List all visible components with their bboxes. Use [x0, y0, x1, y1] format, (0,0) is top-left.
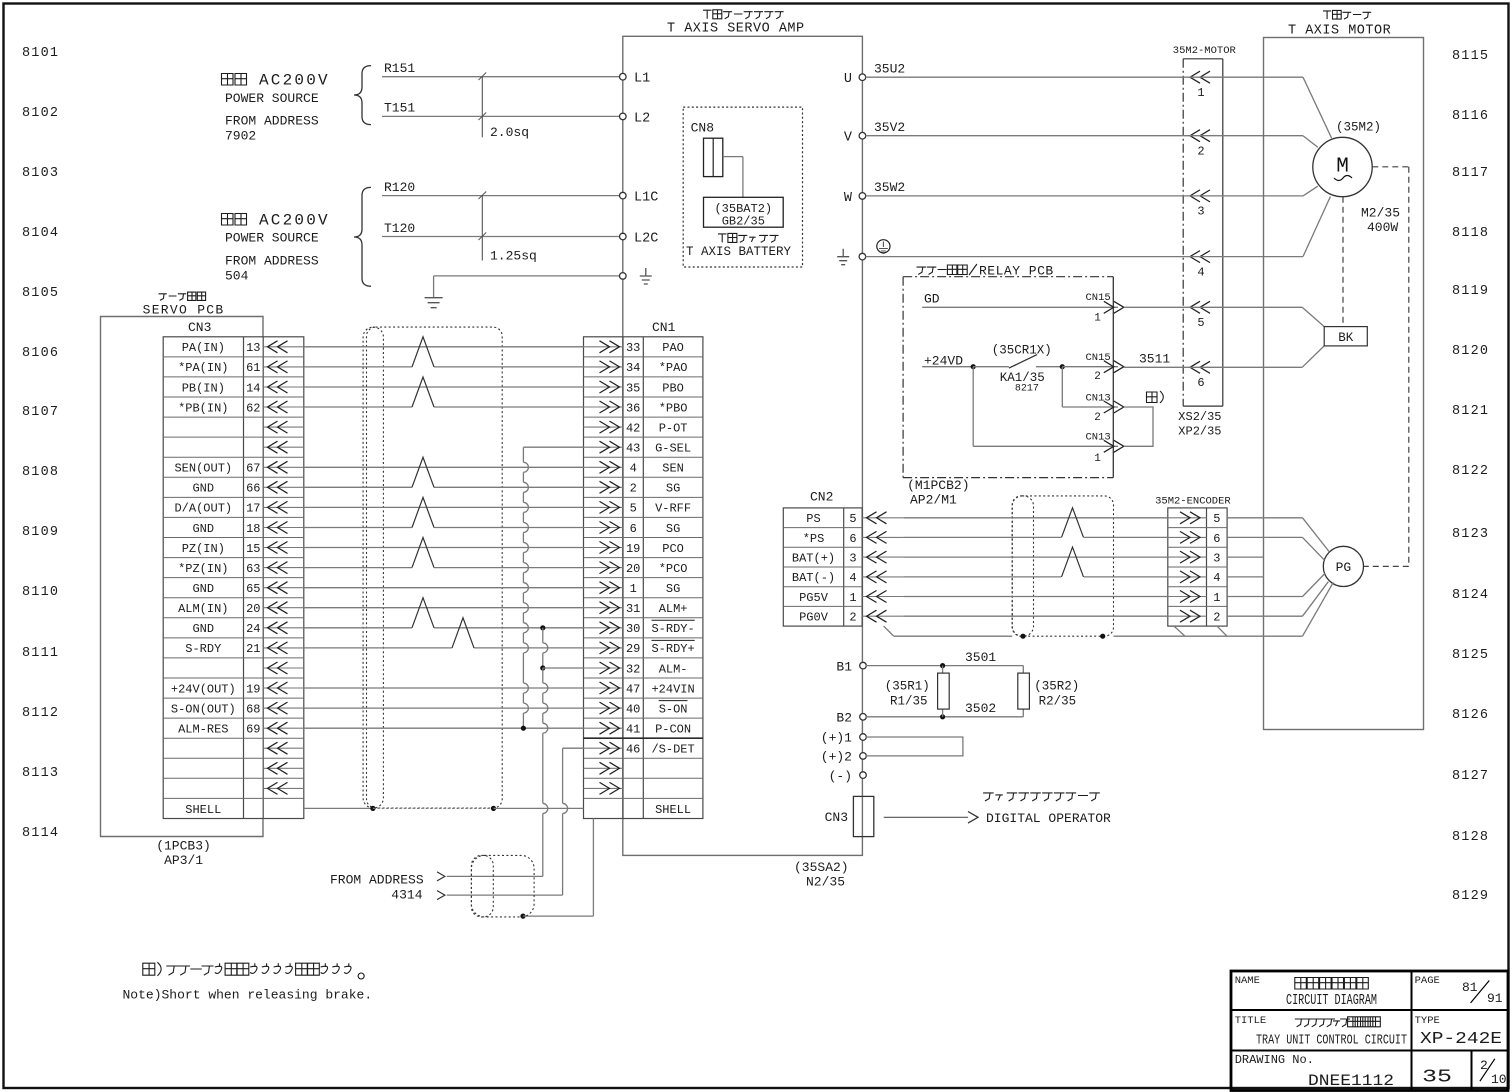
svg-text:GD: GD — [924, 292, 940, 307]
svg-text:8120: 8120 — [1452, 344, 1489, 359]
svg-text:T AXIS BATTERY: T AXIS BATTERY — [686, 245, 792, 259]
motor strip pin 4 arrow — [1190, 251, 1210, 263]
CN13 pin1 wire — [972, 367, 974, 447]
wire-size tick 2.0sq — [481, 77, 483, 138]
wire CN2 row 1 to encoder — [903, 517, 1168, 519]
svg-text:4: 4 — [1213, 571, 1220, 585]
svg-text:CIRCUIT DIAGRAM: CIRCUIT DIAGRAM — [1286, 993, 1377, 1009]
svg-text:65: 65 — [246, 582, 260, 596]
svg-text:8103: 8103 — [22, 166, 59, 181]
terminal V — [859, 132, 866, 139]
svg-text:T120: T120 — [384, 221, 415, 236]
title: circuit diagram (JP) — [1295, 978, 1369, 990]
svg-text:63: 63 — [246, 562, 260, 576]
svg-text:35U2: 35U2 — [874, 62, 905, 77]
encoder row 4 arrow — [1168, 576, 1207, 578]
svg-text:4: 4 — [630, 462, 637, 476]
svg-text:SG: SG — [666, 582, 680, 596]
CN1 row 15 arrow — [584, 627, 624, 629]
svg-text:8127: 8127 — [1452, 769, 1489, 784]
motor strip pin 2 arrow — [1190, 130, 1210, 142]
CN1 row 2 arrow — [584, 366, 624, 368]
svg-text:R1/35: R1/35 — [890, 695, 928, 709]
CN1 row 11 arrow — [584, 547, 624, 549]
label T axis motor (JP) — [1323, 10, 1371, 19]
svg-text:35M2-ENCODER: 35M2-ENCODER — [1155, 496, 1231, 508]
wire GD to motor pin 5 — [1124, 306, 1302, 308]
svg-text:(+)1: (+)1 — [821, 731, 852, 746]
wire CN2 row 3 to encoder — [903, 556, 1168, 558]
svg-text:3511: 3511 — [1139, 352, 1170, 367]
CN1 row 1 arrow — [584, 346, 624, 348]
svg-text:FROM ADDRESS: FROM ADDRESS — [330, 873, 424, 888]
CN1 row 3 arrow — [584, 386, 624, 388]
wire-size tick 1.25sq — [481, 196, 483, 261]
svg-text:PAGE: PAGE — [1415, 975, 1440, 987]
title: tray unit control circuit (JP) — [1295, 1017, 1381, 1027]
CN1 row 22 arrow — [584, 767, 624, 769]
label servo pcb (JP) — [159, 292, 206, 300]
svg-text:SG: SG — [666, 482, 680, 496]
CN2 row 5 arrow — [862, 596, 903, 598]
shield capsule left (CN3 side) — [363, 327, 383, 808]
svg-text:21: 21 — [246, 642, 260, 656]
svg-text:1: 1 — [1213, 591, 1220, 605]
svg-text:2: 2 — [1094, 371, 1101, 383]
encoder shield capsule — [1012, 496, 1033, 636]
svg-text:R151: R151 — [384, 61, 415, 76]
wire E (earth) — [866, 256, 1304, 258]
terminal B2 — [860, 714, 867, 721]
svg-text:BAT(-): BAT(-) — [792, 571, 835, 585]
label T axis servo amp (JP) — [703, 10, 784, 19]
svg-text:1: 1 — [849, 591, 856, 605]
CN3 row 8 arrow — [263, 486, 304, 488]
svg-text:SG: SG — [666, 522, 680, 536]
svg-text:(35SA2): (35SA2) — [794, 860, 849, 875]
net 3502 wire — [866, 716, 1023, 718]
CN3 row 20 arrow — [263, 727, 304, 729]
T AXIS MOTOR box — [1264, 38, 1424, 730]
relay pcb box — [903, 276, 1113, 278]
svg-text:5: 5 — [1213, 512, 1220, 526]
CN3 row 11 arrow — [263, 547, 304, 549]
CN3 row 18 arrow — [263, 687, 304, 689]
svg-text:1: 1 — [1094, 453, 1101, 465]
svg-text:S-ON: S-ON — [659, 702, 688, 716]
svg-text:(35R1): (35R1) — [885, 679, 930, 693]
svg-text:NAME: NAME — [1235, 975, 1260, 987]
net 3501 wire — [866, 665, 1023, 667]
CN1 row 12 arrow — [584, 567, 624, 569]
encoder shield outline — [1012, 496, 1113, 636]
wire CN3 row 4 to CN1 — [304, 406, 412, 408]
svg-text:SERVO PCB: SERVO PCB — [143, 303, 225, 318]
label relay pcb (JP)/RELAY PCB — [917, 264, 977, 275]
svg-text:CN15: CN15 — [1086, 292, 1111, 304]
svg-text:TRAY UNIT CONTROL CIRCUIT: TRAY UNIT CONTROL CIRCUIT — [1256, 1033, 1407, 1049]
CN13 pin2 wire — [1061, 367, 1063, 407]
ground wire from amp left — [434, 275, 620, 277]
motor strip pin 5 arrow — [1190, 301, 1210, 313]
wire CN3 row 8 to CN1 — [304, 486, 412, 488]
svg-text:42: 42 — [626, 421, 640, 435]
svg-text:S-RDY-: S-RDY- — [651, 622, 694, 636]
svg-text:35V2: 35V2 — [874, 120, 905, 135]
svg-text:AP3/1: AP3/1 — [164, 853, 203, 868]
jumper loop — [866, 737, 963, 756]
svg-text:8217: 8217 — [1015, 383, 1039, 394]
CN1 row 16 arrow — [584, 647, 624, 649]
svg-text:CN15: CN15 — [1086, 352, 1111, 364]
svg-text:U: U — [844, 72, 852, 87]
svg-text:CN8: CN8 — [691, 121, 714, 136]
svg-text:CN3: CN3 — [188, 320, 211, 335]
CN3 row 5 arrow — [263, 426, 304, 428]
connector CN1 table — [584, 337, 703, 819]
svg-text:8107: 8107 — [22, 405, 59, 420]
svg-text:G-SEL: G-SEL — [655, 442, 691, 456]
svg-text:TYPE: TYPE — [1415, 1015, 1440, 1027]
svg-text:GND: GND — [192, 622, 214, 636]
svg-text:8102: 8102 — [22, 106, 59, 121]
wire CN3 row 2 to CN1 — [304, 366, 412, 368]
svg-text:PA(IN): PA(IN) — [182, 341, 225, 355]
wire CN2 row 4 to encoder — [903, 576, 1061, 578]
terminal L2C — [620, 233, 627, 240]
svg-text:35: 35 — [1422, 1068, 1452, 1088]
wire CN3 row 9 to CN1 — [304, 506, 584, 508]
svg-text:8122: 8122 — [1452, 464, 1489, 479]
CN1 row 18 arrow — [584, 687, 624, 689]
svg-text:3: 3 — [1197, 205, 1204, 219]
svg-text:2: 2 — [1213, 611, 1220, 625]
motor strip pin 6 arrow — [1190, 361, 1210, 373]
svg-text:(35M2): (35M2) — [1336, 121, 1381, 135]
CN3 row 10 arrow — [263, 527, 304, 529]
from-address wire 1 — [447, 875, 543, 877]
wire CN2 row 2 to encoder — [903, 536, 1061, 538]
CN3 row 9 arrow — [263, 506, 304, 508]
motor circle M 35M2 — [1313, 137, 1372, 196]
svg-text:8128: 8128 — [1452, 830, 1489, 845]
svg-text:(-): (-) — [829, 769, 852, 784]
svg-text:10: 10 — [1491, 1072, 1507, 1087]
svg-text:8119: 8119 — [1452, 284, 1489, 299]
svg-text:2.0sq: 2.0sq — [490, 125, 529, 140]
dashed link M to PG — [1372, 166, 1409, 168]
svg-text:8126: 8126 — [1452, 708, 1489, 723]
svg-text:1.25sq: 1.25sq — [490, 249, 537, 264]
CN1 row 6 arrow — [584, 446, 624, 448]
svg-text:1: 1 — [1197, 86, 1204, 100]
terminal PE with earth symbol — [620, 273, 627, 280]
power source label 2 (AC200V from 504) — [222, 214, 247, 226]
wire CN3 row 18 to CN1 — [304, 687, 584, 689]
wire CN3 row 13 to CN1 — [304, 587, 584, 589]
svg-text:PCO: PCO — [662, 542, 684, 556]
resistor R2/35 (35R2) — [1022, 666, 1024, 674]
PG circle — [1323, 546, 1363, 586]
encoder row 1 arrow — [1168, 517, 1207, 519]
svg-text:8115: 8115 — [1452, 49, 1489, 64]
CN1 row 17 arrow — [584, 667, 624, 669]
svg-text:8112: 8112 — [22, 706, 59, 721]
svg-text:ALM-RES: ALM-RES — [178, 723, 228, 737]
CN3 row 13 arrow — [263, 587, 304, 589]
svg-text:L1C: L1C — [634, 191, 658, 206]
svg-text:8106: 8106 — [22, 346, 59, 361]
svg-text:2: 2 — [630, 482, 637, 496]
svg-text:35: 35 — [626, 381, 640, 395]
svg-text:DRAWING No.: DRAWING No. — [1235, 1053, 1314, 1067]
svg-text:L1: L1 — [634, 72, 650, 87]
CN1 row 5 arrow — [584, 426, 624, 428]
svg-text:5: 5 — [1197, 316, 1204, 330]
CN3 row 14 arrow — [263, 607, 304, 609]
svg-text:2: 2 — [1094, 412, 1101, 424]
from-address wire 2 — [447, 894, 563, 896]
svg-text:B1: B1 — [836, 659, 852, 674]
svg-text:PS: PS — [806, 512, 820, 526]
svg-text:5: 5 — [630, 502, 637, 516]
CN3 row 23 arrow — [263, 787, 304, 789]
svg-text:D/A(OUT): D/A(OUT) — [174, 502, 232, 516]
svg-text:20: 20 — [246, 602, 260, 616]
svg-text:3501: 3501 — [965, 650, 996, 665]
svg-text:24: 24 — [246, 622, 260, 636]
svg-text:67: 67 — [246, 462, 260, 476]
wire CN3 row 7 to CN1 — [304, 466, 584, 468]
terminal (+)1 — [860, 734, 867, 741]
resistor R1/35 (35R1) — [942, 666, 944, 674]
CN1 row 13 arrow — [584, 587, 624, 589]
svg-text:L2: L2 — [634, 111, 650, 126]
svg-text:CN1: CN1 — [652, 320, 676, 335]
svg-text:L2C: L2C — [634, 231, 658, 246]
power source label 1 (AC200V from 7902) — [222, 74, 247, 86]
svg-text:8104: 8104 — [22, 226, 59, 241]
svg-text:35M2-MOTOR: 35M2-MOTOR — [1173, 45, 1237, 57]
wire CN3 row 10 to CN1 — [304, 527, 412, 529]
svg-text:DNEE1112: DNEE1112 — [1308, 1072, 1394, 1090]
encoder row 2 arrow — [1168, 536, 1207, 538]
terminal L1C — [620, 192, 627, 199]
svg-text:B2: B2 — [836, 711, 852, 726]
svg-text:4: 4 — [1197, 265, 1204, 279]
svg-text:S-RDY: S-RDY — [185, 642, 221, 656]
encoder row 3 arrow — [1168, 556, 1207, 558]
svg-text:FROM ADDRESS: FROM ADDRESS — [225, 254, 319, 269]
svg-text:CN13: CN13 — [1086, 432, 1111, 444]
CN3 row 17 arrow — [263, 667, 304, 669]
svg-text:T151: T151 — [384, 101, 415, 116]
svg-text:3: 3 — [849, 552, 856, 566]
note mark (JP) — [1147, 391, 1164, 403]
CN2 row 3 arrow — [862, 556, 903, 558]
svg-text:PG: PG — [1336, 560, 1352, 575]
svg-text:XP2/35: XP2/35 — [1178, 425, 1221, 439]
terminal U — [859, 74, 866, 81]
svg-text:SEN(OUT): SEN(OUT) — [174, 462, 232, 476]
svg-text:8117: 8117 — [1452, 166, 1489, 181]
svg-text:504: 504 — [225, 269, 249, 284]
BK brake tag — [1302, 307, 1324, 326]
from-address shield outline — [471, 855, 534, 917]
svg-text:V: V — [844, 131, 853, 146]
CN2 row 2 arrow — [862, 536, 903, 538]
svg-text:*PS: *PS — [803, 532, 825, 546]
svg-text:S-RDY+: S-RDY+ — [651, 642, 694, 656]
svg-text:18: 18 — [246, 522, 260, 536]
svg-text:W: W — [844, 191, 853, 206]
encoder twisted pair marks — [1062, 508, 1084, 538]
svg-text:8109: 8109 — [22, 525, 59, 540]
svg-text:ALM-: ALM- — [659, 662, 688, 676]
svg-text:1: 1 — [630, 582, 637, 596]
svg-text:AP2/M1: AP2/M1 — [910, 493, 957, 508]
svg-text:(35CR1X): (35CR1X) — [992, 344, 1052, 358]
terminal (+)2 — [860, 753, 867, 760]
svg-text:7902: 7902 — [225, 129, 256, 144]
wire CN3 row 19 to CN1 — [304, 707, 584, 709]
svg-text:PBO: PBO — [662, 381, 684, 395]
wire CN3 row 11 to CN1 — [304, 547, 584, 549]
svg-text:4: 4 — [849, 571, 856, 585]
svg-text:34: 34 — [626, 361, 640, 375]
svg-text:8123: 8123 — [1452, 527, 1489, 542]
svg-text:3: 3 — [1213, 552, 1220, 566]
svg-text:2: 2 — [849, 611, 856, 625]
dashed link M to BK — [1342, 197, 1344, 327]
svg-text:30: 30 — [626, 622, 640, 636]
svg-text:81: 81 — [1462, 980, 1478, 995]
svg-text:XP-242E: XP-242E — [1420, 1030, 1502, 1049]
svg-text:POWER SOURCE: POWER SOURCE — [225, 231, 319, 246]
motor strip pin 1 arrow — [1190, 71, 1210, 83]
svg-text:POWER SOURCE: POWER SOURCE — [225, 91, 319, 106]
CN2 row 1 arrow — [862, 517, 903, 519]
CN3 row 12 arrow — [263, 567, 304, 569]
encoder row 6 arrow — [1168, 615, 1207, 617]
CN3 row 1 arrow — [263, 346, 304, 348]
svg-text:R2/35: R2/35 — [1039, 695, 1077, 709]
svg-text:31: 31 — [626, 602, 640, 616]
terminal B1 — [860, 662, 867, 669]
encoder row 5 arrow — [1168, 596, 1207, 598]
brace 1 — [354, 66, 371, 125]
svg-text:14: 14 — [246, 381, 260, 395]
svg-text:6: 6 — [630, 522, 637, 536]
svg-text:8111: 8111 — [22, 646, 59, 661]
CN3 row 2 arrow — [263, 366, 304, 368]
CN1 row 21 arrow — [584, 747, 624, 749]
svg-text:8105: 8105 — [22, 286, 59, 301]
battery box 35BAT2 GB2/35 — [704, 197, 784, 227]
svg-text:P-CON: P-CON — [655, 723, 691, 737]
twisted pair marks — [412, 337, 434, 367]
svg-text:R120: R120 — [384, 180, 415, 195]
svg-text:TITLE: TITLE — [1235, 1015, 1267, 1027]
svg-text:P-OT: P-OT — [659, 421, 688, 435]
svg-text:8113: 8113 — [22, 766, 59, 781]
CN3 row 4 arrow — [263, 406, 304, 408]
svg-text:17: 17 — [246, 502, 260, 516]
CN1 row 8 arrow — [584, 486, 624, 488]
svg-text:66: 66 — [246, 482, 260, 496]
svg-text:PB(IN): PB(IN) — [182, 381, 225, 395]
CN1 row 19 arrow — [584, 707, 624, 709]
svg-text:PG0V: PG0V — [799, 611, 829, 625]
svg-text:T AXIS SERVO AMP: T AXIS SERVO AMP — [667, 22, 805, 37]
svg-text:RELAY PCB: RELAY PCB — [979, 264, 1054, 279]
encoder wires to PG — [1227, 517, 1302, 519]
svg-text:BK: BK — [1338, 331, 1354, 345]
svg-text:15: 15 — [246, 542, 260, 556]
svg-text:AC200V: AC200V — [259, 72, 330, 90]
shield outline (CN3-CN1 harness) — [367, 327, 503, 808]
wire CN3 row 12 to CN1 — [304, 567, 412, 569]
svg-text:6: 6 — [1197, 376, 1204, 390]
svg-text:CN3: CN3 — [825, 810, 848, 825]
CN1 row 10 arrow — [584, 527, 624, 529]
svg-text:/S-DET: /S-DET — [651, 743, 694, 757]
svg-text:(35R2): (35R2) — [1034, 679, 1079, 693]
svg-text:8108: 8108 — [22, 465, 59, 480]
svg-text:*PZ(IN): *PZ(IN) — [178, 562, 228, 576]
svg-text:PZ(IN): PZ(IN) — [182, 542, 225, 556]
svg-text:(1PCB3): (1PCB3) — [156, 839, 211, 854]
CN3 row 16 arrow — [263, 647, 304, 649]
svg-text:2: 2 — [1197, 145, 1204, 159]
wire CN3 row 16 to CN1 — [304, 647, 452, 649]
svg-text:8118: 8118 — [1452, 226, 1489, 241]
terminal L1 — [620, 73, 627, 80]
svg-text:8116: 8116 — [1452, 109, 1489, 124]
svg-text:SHELL: SHELL — [655, 803, 691, 817]
SHELL wire CN3 to CN1 — [304, 807, 373, 809]
wire CN2 row 6 to encoder — [903, 615, 1168, 617]
svg-text:1: 1 — [1094, 312, 1101, 324]
svg-text:Note)Short when releasing brak: Note)Short when releasing brake. — [123, 988, 373, 1003]
encoder drain wire — [884, 626, 894, 636]
CN1 row 23 arrow — [584, 787, 624, 789]
svg-text:GND: GND — [192, 522, 214, 536]
svg-text:SHELL: SHELL — [185, 803, 221, 817]
CN1 row 4 arrow — [584, 406, 624, 408]
connector CN3 table — [163, 337, 304, 819]
riser from CN1 pin43 G-SEL down to P-CON junction — [523, 446, 583, 448]
CN2 row 4 arrow — [862, 576, 903, 578]
svg-text:8129: 8129 — [1452, 889, 1489, 904]
svg-text:91: 91 — [1487, 991, 1503, 1006]
label digital operator (JP) — [983, 793, 1100, 801]
short-circuit loop CN13 — [1124, 407, 1153, 446]
svg-text:68: 68 — [246, 702, 260, 716]
svg-text:400W: 400W — [1367, 220, 1398, 235]
svg-text:M2/35: M2/35 — [1361, 206, 1400, 221]
svg-text:29: 29 — [626, 642, 640, 656]
svg-text:CN13: CN13 — [1086, 392, 1111, 404]
riser /S-DET to FROM ADDRESS wire2 — [563, 747, 584, 749]
riser S-RDY-/ALM- to FROM ADDRESS wire1 — [540, 625, 545, 630]
connector CN2 table — [783, 508, 862, 626]
svg-text:+24VIN: +24VIN — [651, 682, 694, 696]
wire CN8 to battery — [723, 156, 743, 158]
T AXIS SERVO AMP box — [623, 36, 863, 855]
CN2 row 6 arrow — [862, 615, 903, 617]
svg-text:40: 40 — [626, 702, 640, 716]
